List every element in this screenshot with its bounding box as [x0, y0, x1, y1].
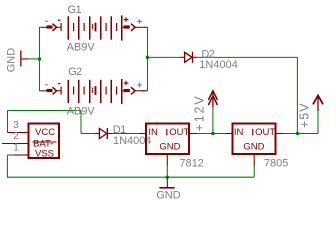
wire D1 cathode to 7812 IN	[112, 133, 140, 135]
IN pin stub	[140, 133, 146, 135]
svg-text:GND: GND	[243, 141, 264, 152]
wire G1+ lead	[146, 26, 148, 28]
wire VCC pin3 up	[7, 111, 9, 133]
wire down right side	[296, 57, 298, 133]
wire 7812 OUT to 7805 IN	[197, 133, 226, 135]
svg-text:OUT: OUT	[255, 127, 275, 138]
wire 7805 GND up	[253, 166, 255, 177]
wire top rail	[8, 110, 82, 112]
7805 box	[233, 124, 276, 155]
junction dot GND left	[38, 57, 41, 60]
svg-text:1: 1	[13, 142, 19, 153]
+5V arrow	[313, 95, 322, 111]
svg-text:7805: 7805	[264, 158, 288, 170]
ground plate bar	[159, 187, 174, 189]
junction dot +12V	[211, 132, 214, 135]
junction dot +5V	[296, 132, 299, 135]
OUT pin stub	[190, 133, 197, 135]
svg-text:2: 2	[13, 131, 19, 142]
svg-text:7812: 7812	[179, 158, 203, 170]
svg-text:G2: G2	[68, 66, 82, 78]
pin 3 stub	[8, 132, 28, 134]
OUT pin stub	[277, 133, 283, 135]
ground pin	[21, 58, 29, 60]
wire VSS down	[6, 155, 8, 177]
connector box	[29, 124, 60, 159]
svg-text:1N4004: 1N4004	[199, 59, 238, 71]
wire 7805 OUT right	[283, 133, 319, 135]
pin 1 stub	[14, 154, 28, 156]
ground pin	[166, 177, 168, 187]
strikethrough BAT	[33, 141, 57, 143]
svg-text:AB9V: AB9V	[67, 105, 96, 117]
svg-text:OUT: OUT	[169, 127, 189, 138]
wire +12V tap up	[212, 107, 214, 134]
svg-text:3: 3	[13, 120, 19, 131]
IN pin stub	[226, 133, 232, 135]
svg-text:GND: GND	[6, 48, 18, 73]
svg-text:AB9V: AB9V	[67, 41, 96, 53]
wire left bus vertical G1- to G2-	[39, 27, 41, 91]
pin tick	[166, 129, 167, 136]
svg-text:GND: GND	[156, 189, 181, 201]
wire G1- lead	[40, 26, 42, 28]
wire down to D1	[80, 111, 82, 134]
svg-text:G1: G1	[68, 4, 82, 16]
wire 7812 GND up	[166, 166, 168, 177]
wire GND to left bus	[29, 58, 40, 60]
wire battery+ to D2 anode	[148, 56, 182, 58]
ground plate bar	[20, 51, 21, 67]
svg-text:VSS: VSS	[35, 149, 54, 160]
GND pin stub	[166, 155, 168, 166]
junction dot battery+	[146, 56, 149, 59]
wire +5V tap up	[317, 111, 319, 134]
wire D2 cathode right	[198, 56, 298, 58]
wire VSS pin1 left	[7, 154, 14, 156]
pin 2 stub	[2, 143, 28, 145]
svg-text:GND: GND	[159, 141, 180, 152]
GND pin stub	[253, 155, 255, 166]
svg-text:+12V: +12V	[193, 94, 207, 131]
svg-text:+5V: +5V	[297, 102, 311, 128]
junction dot bottom GND	[166, 176, 169, 179]
svg-text:IN: IN	[148, 127, 158, 138]
pin tick	[252, 129, 253, 136]
wire bottom GND rail	[7, 176, 254, 178]
svg-text:VCC: VCC	[35, 127, 55, 138]
7812 box	[146, 124, 189, 155]
wire G2- lead	[40, 90, 42, 92]
svg-text:IN: IN	[234, 127, 244, 138]
wire right bus vertical G1+ to G2+	[147, 27, 149, 91]
+12V arrow	[209, 91, 218, 107]
wire G2+ lead	[141, 90, 148, 92]
wire to D1 anode	[81, 133, 96, 135]
